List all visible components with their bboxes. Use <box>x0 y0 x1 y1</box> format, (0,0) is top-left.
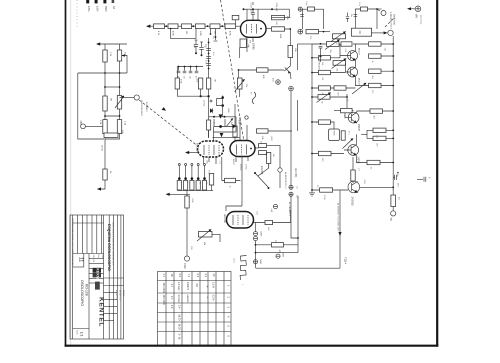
ruler dotted mark <box>76 0 78 28</box>
wire <box>312 63 351 73</box>
terminal P2 <box>95 0 98 3</box>
frame scan edge faint line <box>70 0 72 345</box>
capacitor stub C10 <box>210 29 212 34</box>
frame bottom border <box>65 345 439 347</box>
svg-text:SOSTITUISCE IL DISEGNO N. 1045: SOSTITUISCE IL DISEGNO N. 10452 DEL 12-3 <box>111 222 113 266</box>
wire <box>239 47 241 97</box>
svg-text:OA85: OA85 <box>282 252 285 258</box>
wire <box>214 117 237 141</box>
terminal J1 <box>134 95 139 100</box>
wire screen V1 <box>257 9 259 20</box>
resistor R63 <box>306 29 319 33</box>
svg-text:25k: 25k <box>245 84 247 87</box>
svg-text:5,5: 5,5 <box>178 274 182 278</box>
resistor R10 <box>154 24 165 29</box>
wire <box>105 134 120 139</box>
resistor R29 <box>259 151 267 155</box>
wire <box>212 234 220 242</box>
svg-text:KENTEL: KENTEL <box>98 297 105 327</box>
frame left border <box>65 0 67 347</box>
wire <box>289 58 291 67</box>
waveform sine symbol <box>252 92 256 104</box>
svg-text:0,1u: 0,1u <box>358 2 360 6</box>
wire sync tap <box>120 97 135 99</box>
wire <box>239 69 285 71</box>
terminal small <box>245 116 248 119</box>
svg-text:FIRMA: FIRMA <box>122 290 125 297</box>
wire <box>99 43 127 45</box>
wire <box>105 61 120 96</box>
svg-text:1k: 1k <box>371 61 373 63</box>
svg-text:COMUNE: COMUNE <box>317 60 319 70</box>
svg-text:(ECC88): (ECC88) <box>294 168 297 178</box>
wire <box>178 66 204 68</box>
signature rows right column <box>104 292 118 294</box>
wire <box>290 210 292 223</box>
terminal A2 <box>381 11 386 16</box>
transistor Q4 <box>348 112 359 123</box>
svg-text:AL MORSETTO 4: AL MORSETTO 4 <box>284 172 287 189</box>
node <box>165 25 167 27</box>
capacitor C20 <box>354 14 358 16</box>
wire <box>345 111 393 118</box>
tube V1 cathode stub <box>246 37 248 44</box>
wire <box>177 185 213 191</box>
resistor R28 <box>255 147 259 149</box>
svg-text:T111-4: T111-4 <box>344 257 347 265</box>
wire <box>209 130 241 138</box>
wire <box>377 8 382 10</box>
svg-text:0,1uF 400V: 0,1uF 400V <box>250 3 252 15</box>
terminal M4 <box>278 168 282 172</box>
resistor R30 <box>267 153 271 164</box>
diode D8 <box>232 124 236 129</box>
resistor R43 <box>369 42 381 46</box>
title block inner column line <box>72 215 74 339</box>
wire left rail <box>311 44 313 190</box>
wire divider drop <box>171 29 196 39</box>
svg-text:5k: 5k <box>321 102 323 104</box>
svg-text:47n: 47n <box>212 52 214 55</box>
resistor R65 <box>352 28 372 36</box>
svg-text:10k: 10k <box>321 77 323 80</box>
wire <box>319 31 331 33</box>
svg-text:12k: 12k <box>384 48 386 51</box>
wire <box>186 191 188 256</box>
wire <box>291 196 298 238</box>
wire attenuator bus <box>149 25 241 27</box>
svg-text:esterno: esterno <box>186 295 189 304</box>
resistor R49 <box>369 83 381 87</box>
wire <box>312 94 347 109</box>
svg-text:MODIF. N.2: MODIF. N.2 <box>119 290 121 301</box>
svg-text:1k: 1k <box>229 186 231 188</box>
svg-text:2,4−: 2,4− <box>178 305 181 310</box>
arrow right-mid <box>169 193 191 195</box>
wire right rail <box>392 36 394 191</box>
potentiometer arrow <box>352 83 366 94</box>
svg-text:12V 220V: 12V 220V <box>162 283 165 294</box>
resistor R23 <box>240 39 246 47</box>
svg-text:470k: 470k <box>180 79 182 83</box>
wire <box>258 164 269 177</box>
node <box>104 72 106 74</box>
capacitor C2 <box>201 42 203 47</box>
svg-text:KO-108: KO-108 <box>85 284 89 296</box>
revision grid rows <box>73 253 104 255</box>
resistor R51 <box>334 86 346 90</box>
resistor R47 <box>318 70 330 74</box>
svg-text:47k: 47k <box>309 36 311 39</box>
resistor R4 <box>104 133 118 137</box>
scale row <box>73 328 89 330</box>
voltage table outer frame <box>158 272 232 346</box>
modif rows right <box>104 277 124 279</box>
potentiometer R64 <box>333 34 346 39</box>
ground terminal E1 <box>276 80 281 85</box>
selector contacts <box>178 164 180 166</box>
wire <box>100 180 105 189</box>
svg-text:Appr.: Appr. <box>101 255 104 260</box>
capacitor C4 on bus <box>206 55 211 57</box>
svg-text:22k: 22k <box>260 141 262 144</box>
wire <box>312 44 351 58</box>
resistor R42 <box>341 42 352 46</box>
svg-text:45V: 45V <box>272 78 274 82</box>
svg-text:OA85: OA85 <box>259 259 262 265</box>
resistor R25 on bus <box>207 120 211 130</box>
resistor R55 <box>318 120 330 124</box>
wire <box>297 196 299 253</box>
resistor R45 <box>369 54 381 58</box>
resistor R27 <box>257 129 269 133</box>
svg-text:10k: 10k <box>336 68 338 71</box>
wire <box>353 156 393 171</box>
wire <box>266 28 272 30</box>
svg-text:OA81: OA81 <box>227 108 230 114</box>
svg-text:47k: 47k <box>274 240 276 243</box>
diode D9 <box>220 133 224 137</box>
svg-text:Scala: Scala <box>76 330 78 335</box>
wire plate bus V1 <box>243 9 290 17</box>
transistor Q5 <box>348 145 359 156</box>
resistor R16 <box>272 15 285 19</box>
svg-text:ECC88: ECC88 <box>260 166 264 175</box>
svg-text:1,5 M: 1,5 M <box>212 282 215 288</box>
terminal P4 <box>112 0 115 3</box>
svg-text:OSCILOSCOPIO: OSCILOSCOPIO <box>80 280 84 306</box>
rail junction nodes <box>392 43 394 45</box>
arrow head <box>146 25 150 28</box>
svg-text:POT M: POT M <box>239 164 241 171</box>
resistor R50 <box>318 86 330 90</box>
wire <box>312 187 393 190</box>
resistor bank R34 <box>196 181 200 191</box>
resistor R3 <box>103 96 107 111</box>
diode D4 <box>253 236 257 240</box>
resistor R20 <box>176 67 178 79</box>
diode D2 <box>210 109 213 113</box>
resistor R11 <box>168 24 178 29</box>
resistor bank R32 <box>184 181 188 191</box>
wire <box>372 32 385 34</box>
loop rect 2 <box>214 119 236 127</box>
ground <box>311 190 313 193</box>
terminal COM <box>184 256 189 261</box>
svg-text:BC107: BC107 <box>358 78 360 85</box>
svg-text:RIPRODUZIONE VIETATA - TUTT: RIPRODUZIONE VIETATA - TUTTI I DIRITTI R… <box>71 218 74 266</box>
resistor R60 <box>351 170 355 181</box>
svg-text:3− 1k: 3− 1k <box>178 334 181 341</box>
table row lines <box>158 280 232 282</box>
wire <box>234 104 236 141</box>
svg-text:(+M): (+M) <box>270 208 272 213</box>
resistor R14 <box>210 24 220 29</box>
switch S1 <box>255 173 268 187</box>
terminal P1 <box>86 0 89 3</box>
wire <box>312 86 393 89</box>
wire <box>256 244 299 246</box>
svg-text:1k: 1k <box>321 93 323 95</box>
potentiometer R41 <box>327 42 340 47</box>
diode D5 <box>276 254 280 258</box>
resistor R19 <box>257 68 269 72</box>
svg-text:2N708: 2N708 <box>357 124 359 131</box>
wire <box>85 125 102 127</box>
wire V4 plate row <box>254 223 291 232</box>
capacitor C21 <box>347 13 349 17</box>
terminal E4 <box>289 192 293 196</box>
approval stamp dark cells <box>93 268 101 273</box>
capacitor C1 <box>195 40 197 44</box>
wire <box>290 131 292 185</box>
svg-text:Dis.: Dis. <box>97 255 99 259</box>
wire loop A <box>302 9 323 29</box>
star junction <box>319 55 322 58</box>
svg-text:1,2 Gnd: 1,2 Gnd <box>177 282 180 291</box>
wire <box>291 44 298 131</box>
svg-text:BC107: BC107 <box>358 48 360 55</box>
vacuum tube V2 <box>198 141 224 157</box>
diode D7 <box>219 114 223 118</box>
trimmer R7 <box>117 96 121 110</box>
wire <box>361 130 393 138</box>
svg-text:1M: 1M <box>214 79 216 82</box>
svg-text:4,7k: 4,7k <box>344 49 346 53</box>
wire <box>255 241 257 269</box>
terminal A <box>388 30 393 35</box>
wire <box>356 71 394 86</box>
svg-text:22k: 22k <box>321 62 323 65</box>
resistor R5 <box>103 169 107 180</box>
vacuum tube V4 <box>227 212 254 229</box>
svg-text:AL CANALE X: AL CANALE X <box>288 202 291 217</box>
resistor R1 <box>104 44 106 50</box>
revision grid columns <box>77 215 79 254</box>
svg-text:1M: 1M <box>335 42 337 45</box>
resistor R66 <box>233 126 237 137</box>
resistor R15 <box>225 24 236 29</box>
svg-text:(6V): (6V) <box>190 246 192 250</box>
capacitor plates <box>251 12 255 14</box>
svg-text:5k 20: 5k 20 <box>178 315 181 322</box>
svg-text:ESTERNO: ESTERNO <box>145 102 147 112</box>
svg-text:OA85: OA85 <box>260 231 263 237</box>
resistor R57 <box>373 136 386 140</box>
resistor R18 <box>288 46 293 58</box>
svg-text:1M: 1M <box>185 31 187 34</box>
resistor R59 <box>367 160 380 164</box>
svg-text:(2,4V): (2,4V) <box>245 164 247 170</box>
capacitor C17 <box>308 7 315 11</box>
svg-text:(vedi nota): (vedi nota) <box>393 14 396 25</box>
svg-text:10n: 10n <box>189 76 191 79</box>
wire loop B <box>356 9 378 29</box>
diode D3 <box>253 232 257 236</box>
svg-text:7,1: 7,1 <box>187 274 191 278</box>
resistor R61 <box>320 188 333 192</box>
resistor bank R36 <box>209 174 213 186</box>
wire <box>240 117 247 141</box>
arrow head <box>97 187 101 190</box>
wire <box>179 166 204 181</box>
dashed line B <box>221 0 244 139</box>
svg-text:(4,5V): (4,5V) <box>101 145 103 151</box>
svg-text:V/cm: V/cm <box>208 170 210 175</box>
resistor R22 <box>206 78 210 89</box>
wire main bus <box>208 38 210 138</box>
wire top row <box>312 43 393 45</box>
svg-text:MODIF. N.1: MODIF. N.1 <box>115 290 117 301</box>
svg-text:(1V): (1V) <box>256 211 258 215</box>
box component K1 <box>329 129 340 141</box>
resistor bank R35 <box>202 181 206 191</box>
frame right border <box>436 0 438 347</box>
arrow head <box>96 42 100 45</box>
resistor R69 <box>232 15 239 19</box>
svg-text:2N3055: 2N3055 <box>351 197 355 207</box>
arrow on wire <box>338 232 341 236</box>
resistor R62 <box>392 187 394 195</box>
riser label <box>252 2 254 5</box>
capacitor C7 <box>184 66 186 68</box>
svg-text:5k 20: 5k 20 <box>178 324 181 331</box>
wire <box>298 43 313 45</box>
transistor Q1 <box>284 66 291 79</box>
svg-text:−: − <box>205 297 209 299</box>
wire <box>334 110 354 112</box>
resistor R17 <box>272 27 285 31</box>
terminal M5 <box>273 204 277 208</box>
svg-text:1/1: 1/1 <box>80 332 84 337</box>
svg-text:82k: 82k <box>275 22 277 25</box>
resistor R67 <box>225 178 236 182</box>
wire <box>256 252 299 254</box>
revision grid header line <box>73 222 104 224</box>
wire <box>272 18 291 46</box>
potentiometer R52 <box>318 95 330 100</box>
wire lower rail <box>105 109 120 120</box>
transistor Q6 <box>348 181 360 193</box>
tube V2 pin stubs <box>204 157 222 181</box>
capacitor C18 <box>300 14 304 16</box>
transistor Q2 <box>348 51 358 61</box>
terminal P3 <box>103 0 106 3</box>
svg-text:1,2 Gnd: 1,2 Gnd <box>177 295 180 304</box>
svg-text:220k 1W: 220k 1W <box>275 3 277 13</box>
staircase waveform <box>240 256 246 281</box>
wire <box>268 130 292 132</box>
svg-text:1M: 1M <box>110 98 112 101</box>
svg-text:50k: 50k <box>124 52 126 55</box>
potentiometer arrow <box>343 139 354 149</box>
svg-text:(90V): (90V) <box>270 136 272 141</box>
svg-text:(2V): (2V) <box>206 160 208 164</box>
trimmer R2 <box>119 44 121 50</box>
wire <box>200 89 202 96</box>
wire <box>267 146 281 152</box>
tube V3 pin stubs <box>236 157 248 207</box>
capacitor C9 <box>196 66 198 68</box>
svg-text:SINCRONISMO: SINCRONISMO <box>140 100 142 116</box>
resistor R21 <box>198 78 202 89</box>
wire left drop <box>78 73 104 139</box>
svg-text:3,1: 3,1 <box>204 274 208 278</box>
svg-text:TO: TO <box>389 218 392 221</box>
svg-text:33k: 33k <box>249 40 251 43</box>
resistor R12 <box>182 24 192 29</box>
svg-text:25k: 25k <box>329 50 331 53</box>
capacitor C6 <box>178 66 180 68</box>
svg-text:100kHz: 100kHz <box>186 282 189 291</box>
terminal B <box>298 29 303 34</box>
wire <box>177 89 210 96</box>
wire <box>226 206 242 211</box>
svg-text:10ms: 10ms <box>233 258 235 263</box>
resistor R8 <box>117 120 121 134</box>
terminal TP1 <box>392 207 394 211</box>
svg-text:2M: 2M <box>358 31 361 34</box>
resistor R68 <box>265 220 273 224</box>
wire CRT feed <box>339 191 341 269</box>
capacitor C13 <box>341 131 345 140</box>
svg-text:11: 11 <box>78 257 84 262</box>
potentiometer R39 <box>199 232 213 238</box>
svg-text:(1,2V): (1,2V) <box>203 100 205 106</box>
svg-text:0,1u: 0,1u <box>204 60 206 64</box>
wire <box>279 152 281 188</box>
resistor R40 <box>272 243 284 247</box>
wire <box>214 131 237 133</box>
capacitor stub C11 <box>215 29 217 41</box>
transistor Q3 <box>348 67 358 77</box>
wire top rail <box>78 72 127 74</box>
svg-text:28-5-66: 28-5-66 <box>92 255 94 263</box>
terminal J2 <box>81 124 86 129</box>
tube V1 heater stub <box>252 37 254 42</box>
resistor bank R33 <box>190 181 194 191</box>
plus mark <box>210 100 213 103</box>
resistor R56 <box>373 128 386 132</box>
svg-text:47u: 47u <box>348 131 350 134</box>
capacitor C14 <box>394 175 396 180</box>
svg-text:6,3V~: 6,3V~ <box>95 6 98 13</box>
svg-text:ECC82: ECC82 <box>223 215 227 224</box>
svg-text:0,5W: 0,5W <box>323 195 325 200</box>
capacitor C16 out right <box>417 178 423 180</box>
loop rect wire <box>217 99 223 106</box>
svg-text:4,7n: 4,7n <box>238 120 240 124</box>
